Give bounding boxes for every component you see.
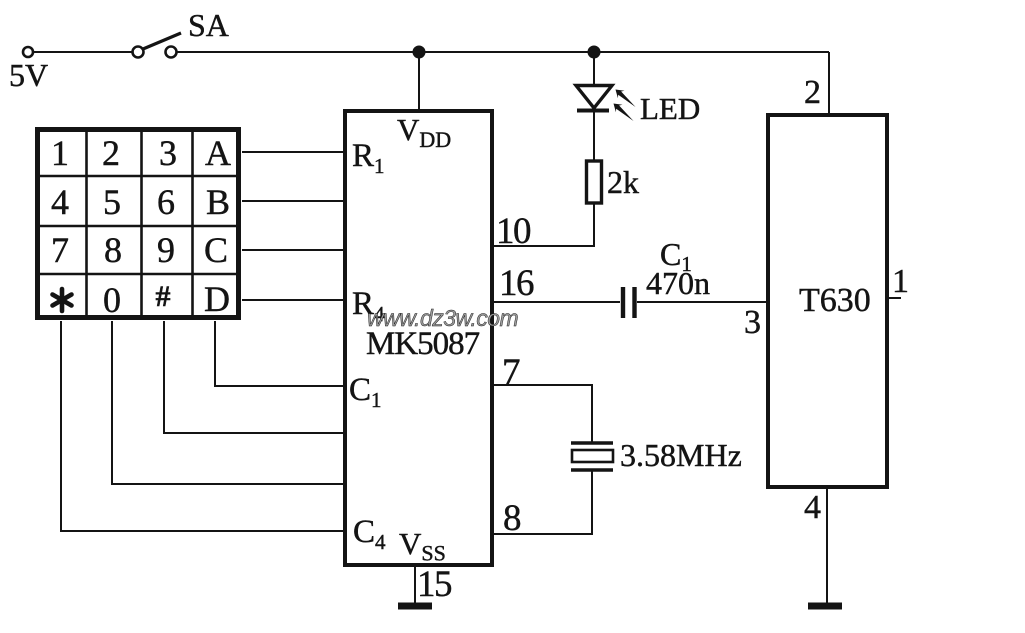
- svg-text:15: 15: [417, 564, 452, 605]
- 5V terminal: [23, 47, 33, 57]
- key asterisk: [53, 289, 72, 311]
- svg-text:4: 4: [51, 182, 69, 222]
- svg-text:7: 7: [51, 230, 69, 270]
- IC U1 MK5087: [345, 111, 492, 565]
- svg-text:8: 8: [104, 230, 122, 270]
- wire keypad row3 to R3: [242, 249, 344, 251]
- svg-text:4: 4: [804, 489, 821, 526]
- svg-text:3: 3: [159, 133, 177, 173]
- svg-text:LED: LED: [640, 91, 700, 126]
- svg-text:SA: SA: [188, 7, 229, 43]
- wire keypad row1 to R1: [242, 151, 344, 153]
- wire 5V to switch: [34, 51, 133, 53]
- wire pin 7 to crystal: [493, 385, 592, 443]
- svg-text:8: 8: [503, 498, 522, 539]
- wire capacitor to T630 pin 3: [637, 301, 767, 303]
- wire keypad row2 to R2: [242, 200, 344, 202]
- svg-text:2: 2: [102, 133, 120, 173]
- svg-text:16: 16: [499, 263, 534, 304]
- svg-text:2: 2: [804, 74, 821, 111]
- pin 1 stub: [887, 297, 901, 299]
- svg-text:B: B: [206, 182, 230, 222]
- wire pin 16 to capacitor: [493, 301, 620, 303]
- keypad 4x4 matrix: [38, 130, 239, 318]
- svg-text:A: A: [205, 133, 231, 173]
- wire resistor to pin 10: [494, 203, 594, 246]
- wire keypad col2 to C3: [112, 321, 344, 484]
- wire rail to VDD pin: [418, 52, 420, 110]
- wire rail to LED anode: [593, 52, 595, 86]
- svg-text:5: 5: [103, 182, 121, 222]
- svg-text:7: 7: [502, 352, 521, 393]
- svg-text:3: 3: [744, 304, 761, 341]
- svg-text:2k: 2k: [607, 164, 639, 200]
- capacitor C1: [623, 287, 635, 318]
- svg-text:1: 1: [892, 263, 909, 300]
- ground GND2: [808, 603, 842, 610]
- node junction LED branch: [589, 47, 600, 58]
- wire crystal to pin 8: [493, 470, 592, 534]
- wire keypad col4 to C1: [215, 321, 344, 386]
- wire VSS pin 15 to ground: [414, 566, 416, 603]
- svg-text:10: 10: [496, 211, 531, 252]
- wire keypad row4 to R4: [242, 299, 344, 301]
- wire T630 pin 4 to ground: [826, 487, 828, 603]
- wire LED cathode to resistor: [593, 110, 595, 161]
- resistor R1 2k: [587, 161, 602, 203]
- svg-text:MK5087: MK5087: [366, 326, 480, 362]
- svg-text:5V: 5V: [9, 57, 48, 93]
- wire keypad col1 to C4: [61, 321, 344, 531]
- node junction VDD branch: [414, 47, 425, 58]
- svg-text:470n: 470n: [646, 265, 710, 301]
- svg-text:C: C: [204, 230, 228, 270]
- svg-text:0: 0: [103, 280, 121, 320]
- svg-text:6: 6: [157, 182, 175, 222]
- wire switch to rail: [177, 51, 830, 53]
- svg-text:#: #: [156, 280, 171, 313]
- wire keypad col3 to C2: [164, 321, 344, 433]
- svg-text:D: D: [204, 279, 230, 319]
- LED D1: [576, 86, 636, 122]
- ground GND1: [398, 603, 432, 610]
- svg-text:9: 9: [157, 230, 175, 270]
- svg-text:T630: T630: [799, 282, 871, 319]
- svg-text:3.58MHz: 3.58MHz: [620, 437, 742, 473]
- IC U2 T630: [768, 115, 887, 487]
- svg-text:www.dz3w.com: www.dz3w.com: [367, 305, 519, 331]
- wire rail to T630 pin 2: [828, 52, 830, 114]
- switch SA: [133, 33, 182, 58]
- svg-text:1: 1: [51, 133, 69, 173]
- crystal X1: [571, 443, 613, 470]
